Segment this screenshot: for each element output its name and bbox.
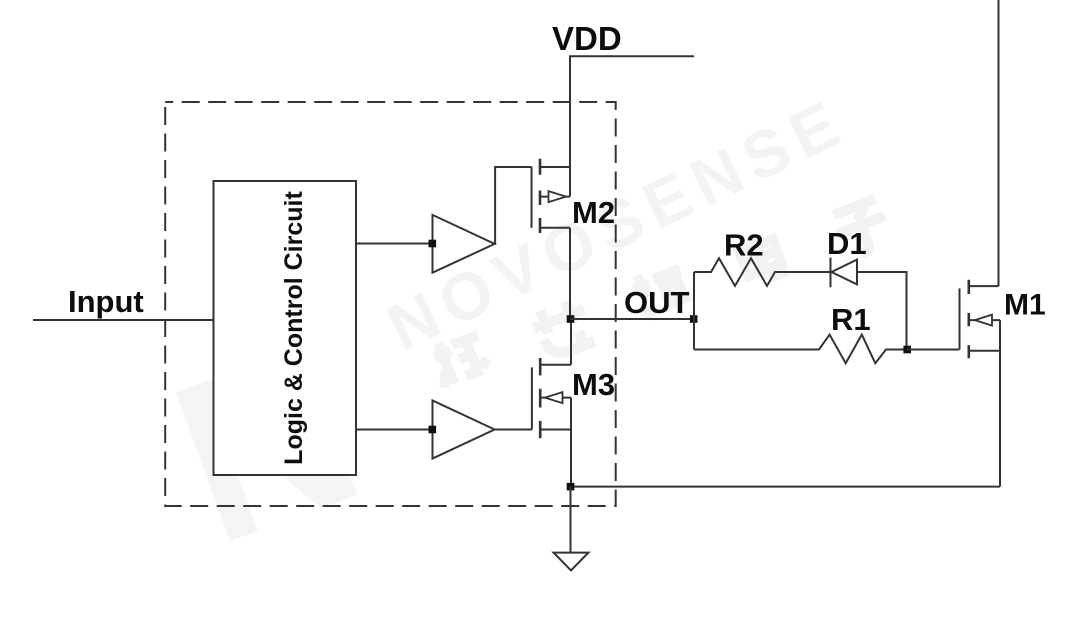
label Logic & Control Circuit bbox=[280, 191, 308, 465]
wire M3 body source to ground node bbox=[570, 398, 572, 487]
wire OUT bbox=[570, 318, 694, 320]
node gate drive bbox=[903, 346, 911, 354]
svg-text:Logic & Control Circuit: Logic & Control Circuit bbox=[280, 191, 308, 465]
wire input bbox=[33, 319, 214, 321]
transistor M2 drain stub bbox=[540, 166, 570, 168]
wire node to M1 gate bbox=[907, 349, 960, 351]
transistor M3 body arrow bbox=[545, 392, 563, 403]
svg-text:R2: R2 bbox=[724, 228, 764, 263]
svg-text:R1: R1 bbox=[831, 302, 871, 337]
transistor M1 body arrow bbox=[975, 315, 992, 326]
transistor M3 drain stub bbox=[540, 364, 571, 366]
transistor M2 body stub bbox=[540, 196, 570, 198]
watermark logo N bbox=[145, 294, 389, 592]
transistor M1 gate plate bbox=[959, 288, 961, 349]
transistor M2 body arrow bbox=[549, 191, 567, 202]
transistor M3 body stub bbox=[540, 397, 571, 399]
buffer A1 bbox=[433, 215, 495, 273]
svg-text:D1: D1 bbox=[827, 226, 867, 261]
resistor R1 bbox=[694, 335, 907, 364]
svg-text:M1: M1 bbox=[1004, 289, 1046, 322]
wire OUT node to M3 drain bbox=[570, 319, 572, 365]
logic control block U1 bbox=[214, 181, 357, 475]
wire M1 drain vertical bbox=[998, 0, 1000, 286]
transistor M1 drain stub bbox=[969, 285, 999, 287]
transistor M2 channel bars bbox=[539, 159, 542, 233]
node top buffer input bbox=[429, 240, 437, 248]
wire ground lead bbox=[570, 487, 572, 553]
svg-text:M2: M2 bbox=[572, 195, 615, 230]
wire VDD rail bbox=[570, 56, 694, 196]
dashed boundary box bbox=[165, 102, 616, 506]
watermark NOVOSENSE bbox=[376, 83, 858, 364]
node bottom buffer input bbox=[429, 426, 437, 434]
svg-text:VDD: VDD bbox=[552, 20, 622, 57]
transistor M2 source stub bbox=[540, 227, 570, 229]
wire M2 source to OUT node bbox=[569, 228, 571, 319]
wire buffer A2 to M3 gate bbox=[495, 429, 532, 431]
wire feedback left vertical bbox=[693, 272, 695, 350]
wire bottom rail bbox=[571, 486, 1001, 488]
wire block to bottom buffer bbox=[356, 429, 432, 431]
transistor M2 gate plate bbox=[531, 167, 533, 228]
wire block to top buffer bbox=[356, 243, 432, 245]
diode D1 triangle bbox=[832, 260, 858, 285]
wire M1 source vertical bbox=[999, 320, 1001, 487]
transistor M1 channel bars bbox=[967, 280, 970, 359]
svg-text:M3: M3 bbox=[572, 367, 615, 402]
diode D1 cathode bar bbox=[830, 258, 832, 288]
wire D1 to right vertical bbox=[857, 272, 907, 350]
wire buffer A1 to M2 gate bbox=[495, 167, 532, 244]
transistor M1 body stub bbox=[969, 319, 1000, 321]
transistor M3 gate plate bbox=[531, 367, 533, 429]
resistor R2 bbox=[694, 258, 831, 286]
buffer A2 bbox=[433, 401, 495, 459]
svg-text:OUT: OUT bbox=[624, 285, 690, 320]
svg-text:Input: Input bbox=[68, 284, 144, 319]
transistor M3 channel bars bbox=[539, 358, 542, 438]
transistor M3 source stub bbox=[540, 429, 571, 431]
ground symbol bbox=[554, 553, 589, 571]
node ground junction bbox=[567, 483, 575, 491]
transistor M1 source stub bbox=[969, 350, 1000, 352]
node feedback left bbox=[690, 315, 698, 323]
node OUT bbox=[567, 315, 575, 323]
watermark chinese characters bbox=[429, 198, 895, 388]
